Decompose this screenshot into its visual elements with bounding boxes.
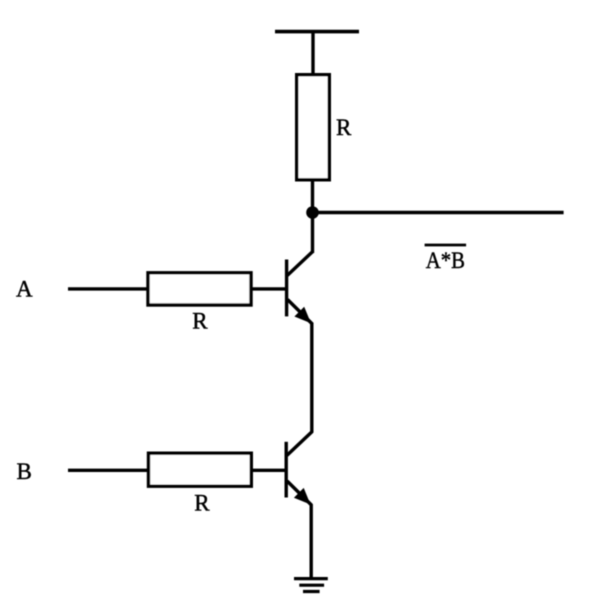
transistor Q1 [287,252,313,324]
svg-text:R: R [192,309,208,334]
wire VCC to R1 [311,32,314,76]
svg-text:B: B [17,459,32,484]
svg-text:A*B: A*B [426,248,465,273]
wire emitter Q2 to ground [310,504,313,579]
wire emitter Q1 to collector Q2 [310,323,313,433]
resistor R1 [297,75,330,180]
wire R2 to base Q1 [251,287,287,290]
transistor Q2 [286,432,312,506]
wire output net [311,211,564,214]
label output net A*B overline [425,244,467,247]
svg-text:R: R [336,115,352,140]
wire R3 to base Q2 [251,469,286,472]
power rail VCC [275,30,359,34]
svg-text:A: A [16,277,33,302]
wire input A to R2 [68,287,149,290]
resistor R3 [149,453,252,486]
resistor R2 [148,273,251,305]
svg-text:R: R [194,491,210,516]
ground [294,579,328,592]
wire R1 to collector Q1 [311,180,314,253]
node output junction [306,206,319,219]
wire input B to R3 [68,469,150,472]
